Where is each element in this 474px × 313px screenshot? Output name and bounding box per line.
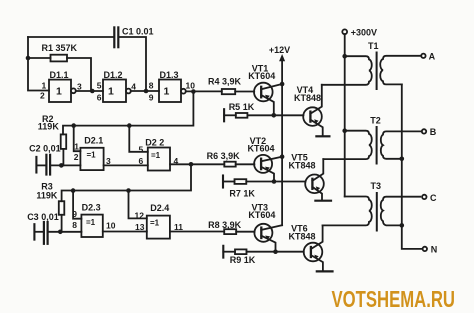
wire D1.3 output pin 10 [186,90,222,92]
svg-text:12: 12 [135,210,145,220]
resistor R5 with terminal bar [224,109,303,121]
svg-text:2: 2 [74,152,79,162]
svg-text:KT604: KT604 [248,144,275,154]
svg-text:=1: =1 [150,219,160,228]
resistor R9 with terminal bar [223,246,303,258]
transformer T2 core [376,127,378,164]
svg-text:C1 0.01: C1 0.01 [122,27,154,37]
svg-text:KT848: KT848 [294,93,321,103]
terminal A [421,54,425,58]
capacitor C3 [34,222,47,244]
wire D2.1 pin3 to D2.2 pin6 [104,164,148,166]
node R2 bottom junction [59,163,64,168]
svg-text:13: 13 [135,222,145,232]
svg-text:B: B [430,127,437,137]
transformer T1 core [376,53,378,90]
svg-text:D1.3: D1.3 [160,70,179,80]
svg-text:3: 3 [77,82,82,92]
svg-text:KT848: KT848 [289,231,316,241]
transistor VT1 [254,83,282,116]
terminal N [423,247,427,251]
transformer T3 secondary [381,197,421,226]
svg-text:5: 5 [139,144,144,154]
resistor R1 [28,55,91,91]
svg-text:9: 9 [149,93,154,103]
wire D2.4 pin11 to R8 [170,231,224,233]
ground VT5 [315,200,331,202]
svg-text:R6 3,9K: R6 3,9K [207,151,241,161]
node D2.1 pin1 tap [71,123,76,128]
svg-text:4: 4 [131,82,136,92]
svg-text:1: 1 [164,86,170,98]
svg-text:=1: =1 [151,151,161,160]
svg-text:R4 3,9K: R4 3,9K [208,76,242,86]
node T3 secondary bottom [400,223,405,228]
svg-text:T1: T1 [368,41,379,51]
node VT2 emitter [272,179,277,184]
svg-text:6: 6 [97,93,102,103]
svg-text:R5 1K: R5 1K [229,102,255,112]
wire to D2.1 pin 1 [74,126,81,152]
transistor VT2 [254,155,282,182]
node D1.1 out junction [90,89,95,94]
svg-text:1: 1 [108,86,114,98]
transistor VT4 [303,85,323,136]
wire top feedback line with C1 [28,37,146,91]
svg-text:=1: =1 [86,218,96,227]
svg-text:N: N [431,245,438,255]
svg-text:1: 1 [42,81,47,91]
transformer T1 secondary [380,56,421,85]
transistor VT3 [254,224,282,252]
node D1.2 out junction [144,89,149,94]
svg-text:R8 3,9K: R8 3,9K [208,220,242,230]
power +12V arrow [279,54,285,225]
svg-text:+300V: +300V [351,27,377,37]
svg-text:KT604: KT604 [248,210,275,220]
transistor VT5 [305,159,324,200]
svg-text:KT604: KT604 [248,71,275,81]
svg-text:D2.4: D2.4 [150,203,169,213]
node VT1 collector on rail [280,82,285,87]
resistor R7 with terminal bar [223,176,305,188]
svg-text:2: 2 [40,91,45,101]
node D2.3 pin9 tap [71,188,76,193]
svg-text:A: A [429,52,436,62]
svg-text:4: 4 [174,156,179,166]
gate D2.2 [148,148,170,171]
transformer T3 core [376,193,378,231]
svg-text:D2.1: D2.1 [84,136,103,146]
op-amp gate D1.1 [49,80,76,102]
gate D2.3 [81,215,102,237]
node R6 junction [189,162,194,167]
svg-text:9: 9 [72,209,77,219]
svg-text:=1: =1 [87,151,97,160]
node VT2 collector on rail [280,154,285,159]
svg-text:+12V: +12V [269,45,290,55]
wire D1.2 output to D1.3 input [131,90,159,92]
node R3 bottom junction [58,230,63,235]
svg-text:R7 1K: R7 1K [229,188,255,198]
wire secondary star bus [402,84,423,249]
svg-text:D2 2: D2 2 [145,138,164,148]
transistor VT6 [304,225,323,270]
node VT3 emitter [273,249,278,254]
transformer T2 primary [323,131,371,159]
wire C3 to D2.3 pin 8 [48,231,82,233]
svg-text:C2 0,01: C2 0,01 [29,144,61,154]
svg-text:C: C [430,193,437,203]
svg-text:C3 0,01: C3 0,01 [27,212,59,222]
wire D2.3 pin10 to D2.4 pin13 [103,231,147,233]
resistor R8 [224,229,254,234]
terminal B [422,129,426,133]
svg-text:T2: T2 [370,116,381,126]
svg-text:D1.2: D1.2 [104,70,123,80]
svg-text:11: 11 [174,222,183,232]
ground VT6 [317,270,333,272]
node bus T1 [342,54,347,59]
node pin10 junction [191,89,196,94]
svg-text:8: 8 [72,220,77,230]
svg-text:1: 1 [74,142,79,152]
node T2 secondary bottom [400,157,405,162]
wire C2 to D2.1 pin 2 [50,164,80,166]
svg-text:D1.1: D1.1 [50,70,69,80]
svg-text:10: 10 [106,221,116,231]
node D2.2 pin5 tap [127,123,132,128]
gate D2.4 [147,216,170,239]
node D2.4 pin12 tap [126,188,131,193]
transformer T2 secondary [381,131,422,158]
transformer T3 primary [323,197,372,226]
svg-text:3: 3 [106,156,111,166]
svg-text:R9 1K: R9 1K [230,255,256,265]
wire D2.2 pin4 out to node [170,163,224,165]
svg-text:6: 6 [139,156,144,166]
svg-text:5: 5 [97,81,102,91]
svg-text:119K: 119K [38,122,60,132]
wire to D2.2 pin 5 [129,126,148,152]
svg-text:KT848: KT848 [289,161,316,171]
svg-text:R1 357K: R1 357K [42,43,78,53]
node bus T2 [342,128,347,133]
svg-text:10: 10 [186,80,196,90]
capacitor C2 [36,155,50,175]
gate D2.1 [80,148,103,170]
wire D1.1 output to D1.2 input [76,90,103,92]
resistor R4 [222,89,254,94]
node VT1 emitter [272,113,277,118]
wire pin10 down to section-2 feed line [63,92,193,135]
capacitor C1 [114,27,118,47]
op-amp gate D1.2 [103,80,131,103]
svg-text:VOTSHEMA.RU: VOTSHEMA.RU [332,286,456,312]
ground VT4 [316,135,329,137]
svg-text:D2.3: D2.3 [82,202,101,212]
wire to D2.4 pin 12 [129,191,147,219]
terminal C [422,195,426,199]
op-amp gate D1.3 [159,80,186,103]
svg-text:T3: T3 [371,181,382,191]
wire to D2.3 pin 9 [73,191,81,219]
resistor R2 [61,134,66,165]
wire +300V bus [344,34,346,196]
svg-text:119K: 119K [36,190,58,200]
svg-text:1: 1 [56,86,62,98]
resistor R6 [224,162,254,167]
svg-text:8: 8 [149,81,154,91]
node junction R1 left on D1.1 input [26,56,31,61]
resistor R3 [59,201,65,232]
transformer T1 primary [322,56,372,85]
power +300V terminal [342,29,347,34]
wire node down to section-3 feed line [62,164,191,201]
